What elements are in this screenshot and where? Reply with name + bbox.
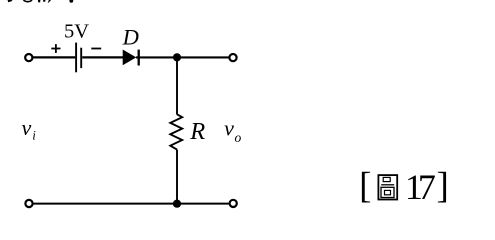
svg-text:i: i bbox=[32, 127, 36, 142]
svg-text:v: v bbox=[22, 115, 32, 140]
svg-text:[: [ bbox=[359, 166, 371, 207]
svg-text:D: D bbox=[122, 25, 139, 50]
svg-text:v: v bbox=[224, 115, 234, 140]
svg-text:5V: 5V bbox=[64, 20, 89, 42]
svg-text:R: R bbox=[189, 118, 205, 145]
svg-text:]: ] bbox=[437, 166, 449, 207]
svg-text:17: 17 bbox=[405, 167, 435, 207]
svg-text:o: o bbox=[235, 130, 242, 145]
